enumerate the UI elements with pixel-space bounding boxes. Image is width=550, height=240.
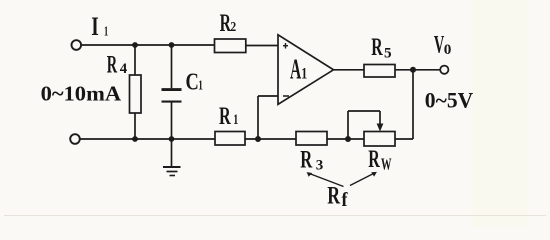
op-amp minus input mark <box>283 95 289 97</box>
svg-text:1: 1 <box>233 112 238 128</box>
svg-text:R: R <box>371 34 383 61</box>
pointer line to R3 <box>308 173 344 187</box>
capacitor C1 top plate <box>162 88 182 91</box>
node R4 bottom <box>132 136 138 142</box>
wire bottom rail <box>80 138 215 140</box>
potentiometer RW body <box>364 132 395 147</box>
wiper arrowhead <box>377 124 384 132</box>
svg-text:2: 2 <box>230 20 236 35</box>
ground bars <box>163 166 181 168</box>
svg-text:1: 1 <box>198 79 203 94</box>
svg-text:C: C <box>186 70 199 96</box>
resistor R5 <box>364 65 395 78</box>
resistor R1 <box>215 132 245 146</box>
wire R1 to R3 <box>245 138 296 140</box>
svg-text:W: W <box>381 155 392 174</box>
svg-text:0: 0 <box>444 42 452 58</box>
op-amp plus input mark <box>283 43 288 49</box>
svg-text:f: f <box>342 189 348 211</box>
svg-text:0~10mA: 0~10mA <box>41 81 122 105</box>
wire R5 to output <box>395 69 440 71</box>
svg-text:0~5V: 0~5V <box>425 88 474 113</box>
node C1 top <box>169 42 175 48</box>
node output <box>410 67 416 73</box>
svg-text:5: 5 <box>384 45 392 61</box>
svg-text:I: I <box>91 12 99 41</box>
wire R2 to op-amp <box>246 45 278 47</box>
svg-text:4: 4 <box>120 61 128 77</box>
capacitor C1 bottom plate <box>162 101 182 103</box>
wire top rail <box>82 44 215 46</box>
svg-text:R: R <box>107 52 118 79</box>
pointer line to RW <box>350 173 375 186</box>
node junction dots <box>132 42 416 142</box>
node ground <box>169 136 175 142</box>
resistor R2 <box>215 39 246 53</box>
input terminal top <box>72 40 82 50</box>
svg-text:R: R <box>219 103 231 130</box>
wire op-amp output <box>334 69 365 71</box>
svg-text:3: 3 <box>316 158 324 174</box>
svg-text:R: R <box>327 183 340 210</box>
wire RW to R3 <box>327 138 364 140</box>
ground lead <box>171 139 173 167</box>
wire C1 top lead <box>171 45 173 88</box>
output terminal <box>440 66 448 74</box>
wire feedback drop <box>412 70 414 139</box>
resistor R4 <box>130 75 142 113</box>
wire riser to op-amp lower input <box>257 96 259 139</box>
wiper loop wire <box>347 111 349 139</box>
op-amp A1 <box>278 35 334 105</box>
node lower input <box>255 136 261 142</box>
svg-text:A: A <box>290 55 302 86</box>
node R4 top <box>132 42 138 48</box>
svg-text:R: R <box>300 146 313 173</box>
input terminal bottom <box>70 134 80 144</box>
wire C1 bottom lead <box>171 103 173 140</box>
resistor R3 <box>296 132 327 146</box>
svg-text:1: 1 <box>301 66 307 83</box>
wire R4 top lead <box>134 45 136 75</box>
svg-text:V: V <box>434 31 444 58</box>
wire R4 bottom lead <box>134 113 136 139</box>
svg-text:1: 1 <box>104 25 108 40</box>
svg-text:R: R <box>368 146 380 173</box>
node wiper <box>345 136 351 142</box>
